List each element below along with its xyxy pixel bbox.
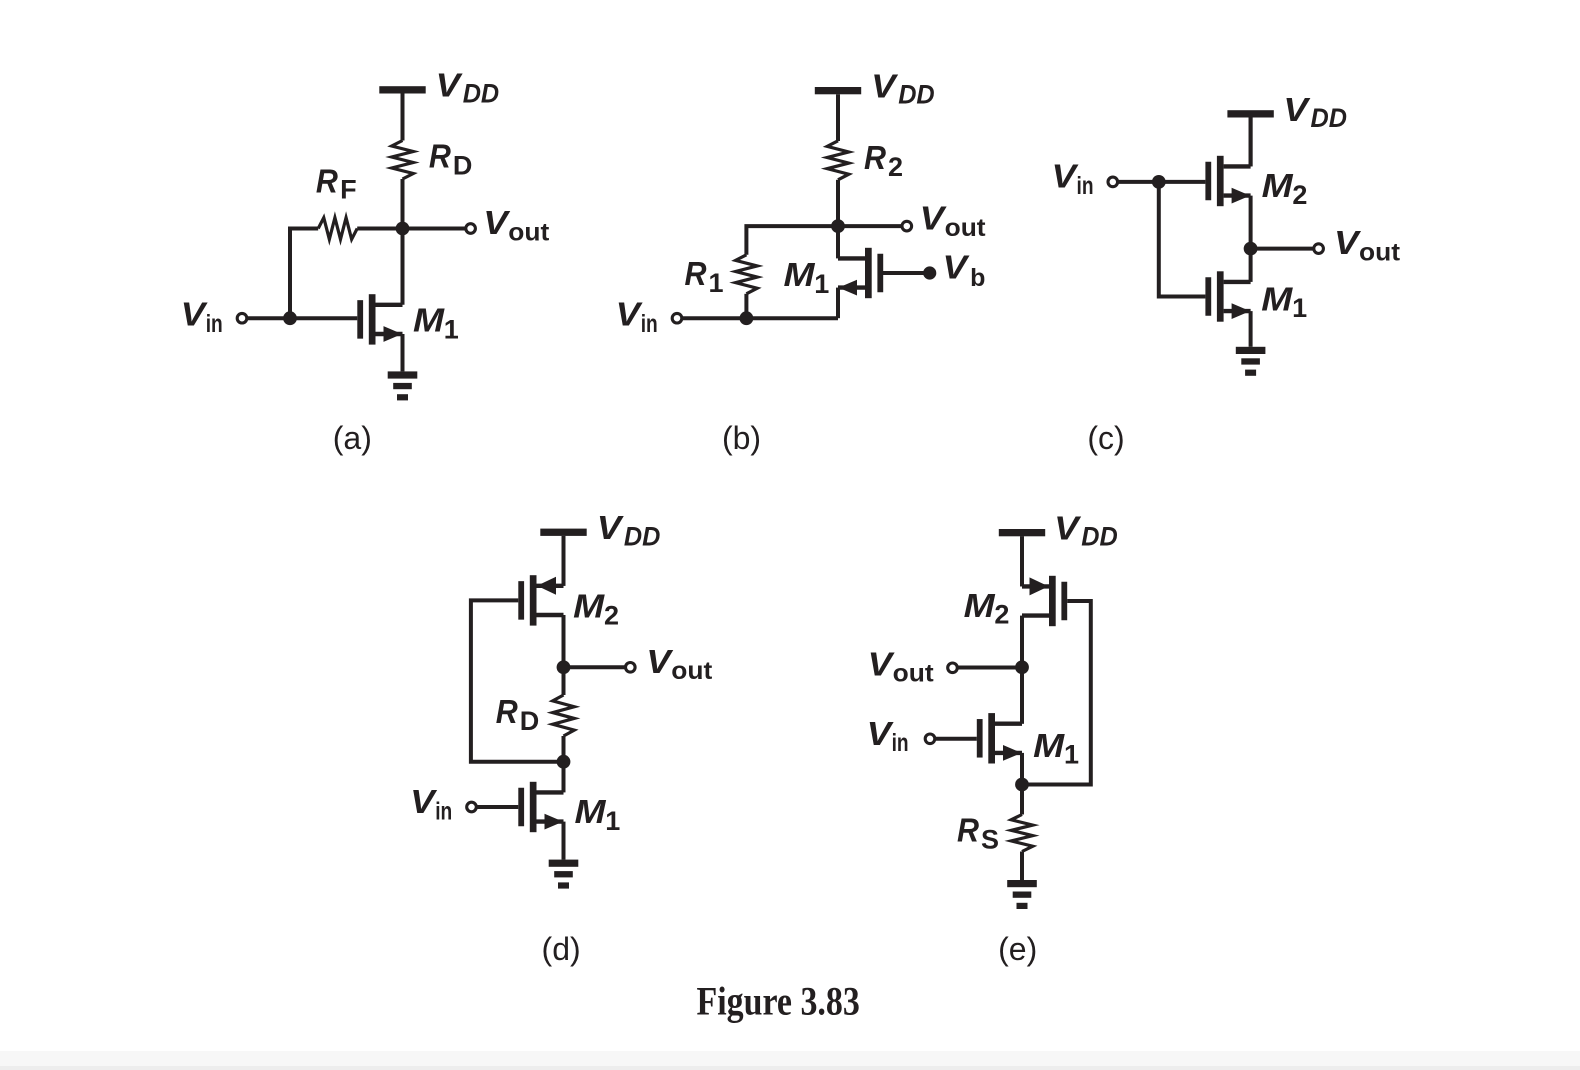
svg-text:1: 1 bbox=[1292, 293, 1307, 323]
svg-text:R: R bbox=[429, 139, 451, 176]
svg-text:V: V bbox=[920, 201, 947, 238]
svg-text:V: V bbox=[436, 68, 463, 105]
svg-text:S: S bbox=[981, 825, 999, 855]
svg-text:R: R bbox=[496, 694, 518, 731]
svg-text:out: out bbox=[945, 214, 987, 242]
svg-text:(c): (c) bbox=[1087, 420, 1124, 456]
svg-text:M: M bbox=[575, 794, 607, 831]
svg-text:V: V bbox=[867, 716, 894, 753]
svg-text:2: 2 bbox=[1292, 180, 1307, 210]
svg-text:1: 1 bbox=[814, 269, 829, 299]
svg-text:in: in bbox=[435, 797, 452, 825]
svg-text:1: 1 bbox=[605, 806, 620, 836]
svg-text:V: V bbox=[1052, 158, 1079, 195]
svg-text:F: F bbox=[340, 175, 357, 205]
svg-text:2: 2 bbox=[604, 601, 619, 631]
svg-text:M: M bbox=[964, 588, 996, 625]
svg-text:M: M bbox=[784, 257, 816, 294]
svg-text:2: 2 bbox=[994, 600, 1009, 630]
svg-text:in: in bbox=[1077, 172, 1094, 200]
svg-text:out: out bbox=[893, 660, 935, 688]
svg-text:in: in bbox=[206, 310, 223, 338]
svg-text:1: 1 bbox=[709, 268, 724, 298]
svg-text:V: V bbox=[1054, 511, 1081, 548]
svg-text:V: V bbox=[181, 297, 208, 334]
svg-text:D: D bbox=[453, 151, 473, 181]
svg-text:out: out bbox=[1359, 239, 1401, 267]
svg-text:2: 2 bbox=[888, 152, 903, 182]
svg-text:b: b bbox=[970, 264, 985, 292]
svg-text:M: M bbox=[1261, 281, 1293, 318]
svg-text:V: V bbox=[410, 784, 437, 821]
svg-text:Figure 3.83: Figure 3.83 bbox=[697, 978, 860, 1023]
svg-text:M: M bbox=[573, 589, 605, 626]
svg-text:1: 1 bbox=[444, 315, 459, 345]
svg-text:(a): (a) bbox=[333, 420, 372, 456]
svg-text:(b): (b) bbox=[722, 420, 761, 456]
svg-text:in: in bbox=[892, 729, 909, 757]
svg-text:(d): (d) bbox=[542, 931, 581, 967]
svg-text:V: V bbox=[616, 296, 643, 333]
svg-text:V: V bbox=[483, 205, 510, 242]
svg-text:V: V bbox=[1283, 92, 1310, 129]
svg-text:DD: DD bbox=[624, 521, 661, 551]
svg-text:out: out bbox=[671, 657, 713, 685]
svg-text:1: 1 bbox=[1064, 740, 1079, 770]
svg-text:R: R bbox=[316, 164, 338, 201]
svg-text:V: V bbox=[646, 644, 673, 681]
svg-text:DD: DD bbox=[1081, 522, 1118, 552]
svg-text:M: M bbox=[413, 303, 445, 340]
svg-text:out: out bbox=[508, 218, 550, 246]
svg-text:(e): (e) bbox=[998, 931, 1037, 967]
svg-text:in: in bbox=[641, 310, 658, 338]
svg-text:D: D bbox=[520, 706, 540, 736]
svg-text:V: V bbox=[868, 646, 895, 683]
svg-text:M: M bbox=[1033, 728, 1065, 765]
svg-text:DD: DD bbox=[463, 79, 500, 109]
svg-text:DD: DD bbox=[1311, 103, 1348, 133]
svg-text:M: M bbox=[1262, 168, 1294, 205]
svg-text:V: V bbox=[1334, 225, 1361, 262]
svg-text:R: R bbox=[957, 813, 979, 850]
svg-text:V: V bbox=[943, 250, 970, 287]
svg-text:V: V bbox=[871, 68, 898, 105]
svg-text:R: R bbox=[864, 140, 886, 177]
svg-text:R: R bbox=[685, 256, 707, 293]
svg-text:V: V bbox=[597, 510, 624, 547]
svg-text:DD: DD bbox=[898, 80, 935, 110]
